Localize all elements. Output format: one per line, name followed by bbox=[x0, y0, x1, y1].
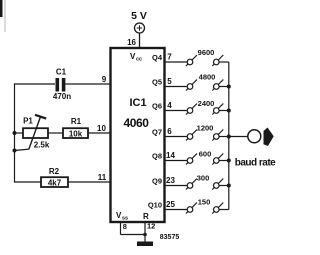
svg-text:Q7: Q7 bbox=[152, 128, 162, 137]
svg-text:83575: 83575 bbox=[160, 234, 180, 241]
wire S7b to bus bbox=[219, 209, 229, 211]
label 600 bbox=[199, 150, 212, 159]
wire 5V to pin16 bbox=[139, 33, 141, 48]
wire pin9 left segment bbox=[15, 83, 56, 85]
svg-text:P1: P1 bbox=[23, 117, 33, 126]
svg-text:2400: 2400 bbox=[198, 99, 215, 108]
switch S3a bbox=[186, 104, 197, 115]
label Q6 bbox=[152, 102, 162, 111]
label 1200 bbox=[197, 124, 214, 133]
switch S4a bbox=[186, 130, 197, 141]
node P1 wiper bbox=[13, 149, 17, 153]
svg-text:R2: R2 bbox=[49, 167, 60, 176]
pin Q6 wire bbox=[165, 110, 188, 112]
pin 7 label bbox=[167, 53, 172, 62]
wire S5b to bus bbox=[219, 160, 229, 162]
node bus row2 bbox=[227, 85, 231, 89]
switch S5b bbox=[212, 154, 223, 165]
wire bus to output bbox=[229, 136, 248, 138]
svg-text:1200: 1200 bbox=[197, 124, 214, 133]
pin 25 label bbox=[166, 200, 175, 209]
label Q7 bbox=[152, 128, 162, 137]
svg-text:Q9: Q9 bbox=[152, 177, 162, 186]
svg-text:23: 23 bbox=[166, 176, 175, 185]
supply symbol + bbox=[135, 23, 145, 33]
label 83575 bbox=[160, 234, 180, 241]
svg-text:10: 10 bbox=[97, 124, 106, 133]
pin 12 wire bbox=[144, 222, 146, 243]
svg-text:R: R bbox=[143, 212, 149, 221]
svg-text:baud rate: baud rate bbox=[235, 158, 276, 169]
pin Q7 wire bbox=[165, 136, 188, 138]
pin 12 label bbox=[147, 222, 155, 231]
pin 8 label bbox=[123, 222, 127, 231]
svg-text:10k: 10k bbox=[69, 130, 83, 139]
label baud rate bbox=[235, 158, 276, 169]
switch S4b bbox=[212, 130, 223, 141]
node bus row3 bbox=[227, 109, 231, 113]
svg-text:Q6: Q6 bbox=[152, 102, 162, 111]
svg-text:Q8: Q8 bbox=[152, 152, 162, 161]
node pin8/12 junction bbox=[143, 233, 147, 237]
pin 9 label bbox=[102, 75, 107, 84]
svg-text:7: 7 bbox=[167, 53, 172, 62]
svg-text:5: 5 bbox=[167, 77, 172, 86]
label Q8 bbox=[152, 152, 162, 161]
label 9600 bbox=[198, 48, 215, 57]
switch S1b bbox=[212, 55, 223, 66]
wire left to R2 bbox=[15, 181, 42, 183]
wire S2b to bus bbox=[219, 86, 229, 88]
output terminal bbox=[248, 130, 261, 143]
label 4800 bbox=[199, 73, 216, 82]
svg-text:150: 150 bbox=[198, 198, 211, 207]
node bus row4 bbox=[227, 135, 231, 139]
node bus row6 bbox=[227, 184, 231, 188]
pin 14 label bbox=[166, 151, 175, 160]
capacitor C1 bbox=[53, 68, 71, 102]
label Q10 bbox=[148, 201, 162, 210]
switch S3b bbox=[212, 104, 223, 115]
switch S7a bbox=[186, 203, 197, 214]
svg-text:9: 9 bbox=[102, 75, 107, 84]
svg-text:4060: 4060 bbox=[123, 116, 149, 130]
output arrow bbox=[264, 128, 274, 147]
svg-text:R1: R1 bbox=[71, 117, 82, 126]
wire S6b to bus bbox=[219, 185, 229, 187]
svg-text:Q4: Q4 bbox=[152, 53, 163, 62]
pin 10 label bbox=[97, 124, 106, 133]
label Q5 bbox=[152, 78, 162, 87]
svg-text:cc: cc bbox=[136, 57, 142, 63]
svg-text:300: 300 bbox=[197, 174, 210, 183]
resistor R2 bbox=[41, 167, 68, 188]
pin Q5 wire bbox=[165, 86, 188, 88]
svg-text:Q10: Q10 bbox=[148, 201, 162, 210]
switch S2b bbox=[212, 80, 223, 91]
pin 6 label bbox=[167, 127, 172, 136]
wire S4b to bus bbox=[219, 136, 229, 138]
switch S5a bbox=[186, 154, 197, 165]
node P1 left bbox=[13, 131, 17, 135]
wire C1 to pin9 bbox=[65, 83, 110, 85]
svg-text:14: 14 bbox=[166, 151, 175, 160]
label Q4 bbox=[152, 53, 163, 62]
svg-text:600: 600 bbox=[199, 150, 212, 159]
svg-text:9600: 9600 bbox=[198, 48, 215, 57]
wire R1 to pin10 bbox=[88, 132, 111, 134]
potentiometer P1 bbox=[15, 115, 50, 151]
svg-text:2.5k: 2.5k bbox=[34, 141, 50, 150]
svg-text:IC1: IC1 bbox=[129, 97, 146, 109]
svg-text:C1: C1 bbox=[56, 68, 67, 77]
label Q9 bbox=[152, 177, 162, 186]
op IC1 4060 box bbox=[111, 48, 165, 222]
wire S3b to bus bbox=[219, 110, 229, 112]
svg-text:ss: ss bbox=[122, 216, 128, 222]
svg-text:25: 25 bbox=[166, 200, 175, 209]
wire output bus bbox=[228, 62, 230, 210]
pin 23 label bbox=[166, 176, 175, 185]
svg-text:4800: 4800 bbox=[199, 73, 216, 82]
svg-text:8: 8 bbox=[123, 222, 127, 231]
pin 11 label bbox=[98, 173, 107, 182]
pin 16 label bbox=[127, 38, 136, 47]
svg-text:6: 6 bbox=[167, 127, 172, 136]
svg-text:4: 4 bbox=[167, 101, 172, 110]
switch S7b bbox=[212, 203, 223, 214]
pin Q8 wire bbox=[165, 160, 188, 162]
wire node to P1 bbox=[15, 132, 24, 134]
label 2400 bbox=[198, 99, 215, 108]
svg-text:4k7: 4k7 bbox=[48, 179, 62, 188]
label 300 bbox=[197, 174, 210, 183]
svg-text:11: 11 bbox=[98, 173, 107, 182]
svg-text:16: 16 bbox=[127, 38, 136, 47]
wire S1b to bus bbox=[219, 61, 229, 63]
svg-text:470n: 470n bbox=[53, 92, 71, 101]
wire pin8 to pin12 bbox=[121, 234, 146, 236]
pin Q9 wire bbox=[165, 185, 188, 187]
label 150 bbox=[198, 198, 211, 207]
svg-text:5 V: 5 V bbox=[131, 10, 147, 22]
wire R2 to pin11 bbox=[68, 181, 111, 183]
scan artifact bar top-left bbox=[0, 0, 3, 17]
switch S6a bbox=[186, 179, 197, 190]
svg-text:Q5: Q5 bbox=[152, 78, 162, 87]
node bus row5 bbox=[227, 159, 231, 163]
pin Q10 wire bbox=[165, 209, 188, 211]
supply label 5V bbox=[131, 10, 147, 22]
wire left vertical bbox=[14, 83, 16, 182]
pin Q4 wire bbox=[165, 61, 188, 63]
wire P1 to R1 bbox=[48, 132, 63, 134]
ground bbox=[137, 242, 153, 247]
svg-text:12: 12 bbox=[147, 222, 155, 231]
switch S1a bbox=[186, 55, 197, 66]
resistor R1 bbox=[63, 117, 88, 139]
pin 8 stub bbox=[120, 222, 122, 235]
switch S6b bbox=[212, 179, 223, 190]
switch S2a bbox=[186, 80, 197, 91]
pin 4 label bbox=[167, 101, 172, 110]
pin 5 label bbox=[167, 77, 172, 86]
